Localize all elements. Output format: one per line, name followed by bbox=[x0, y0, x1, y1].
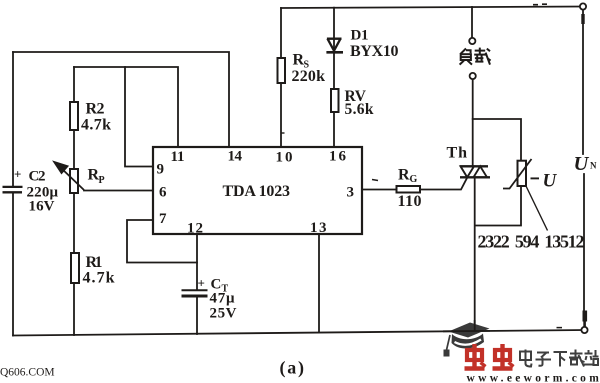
artifact dots on top rail bbox=[533, 3, 547, 6]
svg-text:25V: 25V bbox=[210, 306, 237, 322]
wire: left rail top segment bbox=[12, 52, 14, 186]
svg-text:N: N bbox=[590, 161, 597, 171]
resistor RG bbox=[397, 186, 421, 193]
svg-text:47μ: 47μ bbox=[210, 291, 235, 307]
wire: pin 13 to bottom rail bbox=[318, 234, 320, 332]
wire: D1 to RV bbox=[333, 52, 335, 89]
wire: CT to bottom rail bbox=[196, 297, 198, 334]
artifact dots on bottom rail bbox=[557, 327, 563, 329]
svg-text:4.7k: 4.7k bbox=[83, 270, 115, 287]
svg-text:6: 6 bbox=[159, 185, 167, 201]
wire: pin 12 down to CT bbox=[196, 234, 198, 289]
watermark graduation cap bbox=[444, 323, 490, 357]
svg-text:R1: R1 bbox=[86, 254, 103, 271]
thyristor Th (triac) bbox=[460, 166, 490, 177]
resistor RV bbox=[331, 89, 339, 112]
terminal: bottom right bbox=[581, 327, 587, 333]
terminal: load top bbox=[469, 38, 475, 44]
wire: triac down to bottom rail bbox=[474, 178, 476, 331]
wire: pin 3 to RG bbox=[362, 189, 396, 191]
wire: R2 to RP bbox=[73, 130, 75, 169]
watermark dianzi xiazaizhan (gray) bbox=[520, 350, 599, 367]
wire: left rail bottom segment bbox=[12, 194, 14, 336]
potentiometer RP bbox=[70, 169, 78, 193]
svg-text:U: U bbox=[543, 171, 558, 192]
wire: RV to pin 16 bbox=[333, 112, 335, 147]
svg-text:11: 11 bbox=[171, 149, 185, 165]
svg-text:Q606.COM: Q606.COM bbox=[0, 367, 55, 379]
leader line to part number bbox=[526, 186, 548, 231]
svg-text:16: 16 bbox=[329, 149, 347, 165]
wire: triac lead over cap bbox=[474, 320, 476, 331]
wire: D1 top lead bbox=[333, 8, 335, 38]
svg-text:9: 9 bbox=[157, 162, 165, 178]
artifact dash near pin 3 bbox=[372, 180, 378, 181]
IC U1 TDA1023 body bbox=[153, 147, 362, 234]
resistor R1 bbox=[71, 253, 79, 283]
svg-text:G: G bbox=[410, 174, 418, 185]
wire: bottom rail over cap bbox=[443, 330, 490, 332]
svg-text:U: U bbox=[574, 153, 590, 175]
wire: load branch from top rail bbox=[471, 7, 473, 38]
svg-text:5.6k: 5.6k bbox=[345, 101, 374, 118]
svg-text:+: + bbox=[14, 167, 21, 182]
capacitor CT bbox=[182, 289, 208, 291]
wire: branch to pin 9 bbox=[125, 67, 153, 167]
label load (fu zai) bbox=[460, 48, 491, 65]
wire: RS top lead bbox=[280, 8, 282, 58]
svg-text:7: 7 bbox=[159, 211, 167, 227]
svg-text:C2: C2 bbox=[29, 169, 46, 185]
svg-text:220k: 220k bbox=[292, 68, 326, 85]
artifact tick on pin 10 wire bbox=[281, 132, 285, 134]
capacitor C2 bbox=[3, 186, 23, 188]
svg-text:4.7k: 4.7k bbox=[81, 116, 111, 133]
watermark chong chong (red) bbox=[465, 344, 514, 369]
svg-text:BYX10: BYX10 bbox=[350, 43, 399, 60]
svg-text:P: P bbox=[99, 175, 105, 186]
resistor R2 bbox=[70, 102, 78, 130]
varistor U bbox=[518, 161, 527, 186]
svg-text:3: 3 bbox=[347, 185, 355, 201]
svg-text:(a): (a) bbox=[280, 358, 305, 379]
wire: right rail upper bbox=[582, 10, 584, 155]
svg-text:R: R bbox=[398, 167, 410, 184]
wire: top-left wire to pin 14 bbox=[13, 52, 229, 147]
wire: branch to varistor bbox=[473, 119, 521, 161]
wire: RS to pin 10 bbox=[280, 83, 282, 147]
wire: RP wiper to pin 6 bbox=[84, 190, 153, 192]
svg-text:2322 594 13512: 2322 594 13512 bbox=[478, 232, 585, 252]
svg-text:16V: 16V bbox=[29, 199, 55, 215]
svg-text:12: 12 bbox=[187, 221, 203, 237]
svg-text:13: 13 bbox=[310, 220, 327, 236]
wire: bottom rail bbox=[13, 330, 585, 336]
wire: R2 top lead bbox=[73, 67, 75, 102]
svg-text:www.eeworm.com: www.eeworm.com bbox=[467, 373, 600, 383]
svg-text:14: 14 bbox=[228, 149, 243, 165]
svg-text:+: + bbox=[198, 276, 205, 291]
artifact blob on right rail bbox=[581, 14, 584, 24]
arrow on right rail bbox=[582, 311, 587, 322]
wire: pin 7 loop to pin 12 node bbox=[127, 220, 197, 263]
terminal: load bottom bbox=[470, 73, 476, 79]
wire: right rail lower bbox=[583, 174, 585, 311]
svg-text:Th: Th bbox=[447, 145, 468, 162]
diode D1 BYX10 bbox=[333, 38, 335, 52]
wire: upper wire R2 to pin 11 bbox=[74, 67, 178, 147]
svg-text:D1: D1 bbox=[351, 28, 369, 44]
wire: RP to R1 bbox=[73, 193, 75, 253]
wire: load to triac bbox=[472, 80, 474, 167]
wire: RG to triac gate bbox=[421, 178, 468, 190]
resistor RS bbox=[278, 58, 286, 83]
wire: varistor bottom loop bbox=[475, 186, 521, 226]
svg-text:R2: R2 bbox=[86, 100, 105, 117]
terminal: top right bbox=[580, 3, 586, 9]
svg-text:110: 110 bbox=[398, 193, 422, 210]
svg-text:TDA 1023: TDA 1023 bbox=[223, 183, 291, 200]
wire: R1 to bottom rail bbox=[73, 283, 75, 335]
wire: top rail bbox=[281, 7, 583, 9]
